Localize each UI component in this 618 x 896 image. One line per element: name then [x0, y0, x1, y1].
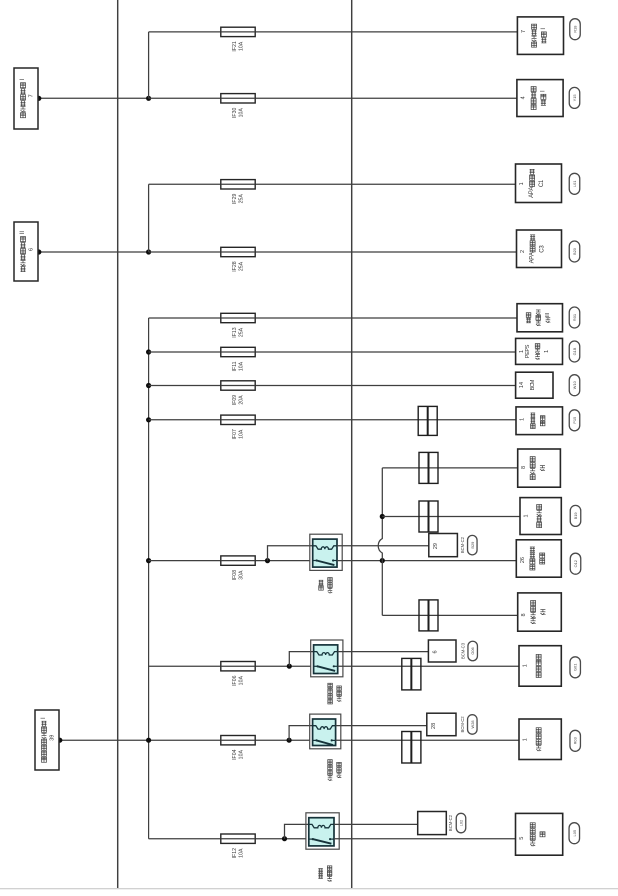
wire (coil to BCM pin28): [336, 725, 427, 727]
wire label wire 0.5Y: [569, 87, 580, 108]
svg-text:10A: 10A: [238, 676, 244, 686]
wire label wire 0.5L: [569, 173, 580, 194]
fuse IF07 10A: [221, 415, 256, 439]
wire label wire 0.5B #2: [570, 505, 581, 526]
connector box load BCM pin14: [516, 372, 553, 398]
svg-text:8: 8: [521, 613, 527, 616]
junction: [287, 664, 292, 669]
svg-text:BCM-C2: BCM-C2: [460, 716, 465, 733]
junction: [36, 96, 41, 101]
svg-text:6: 6: [29, 248, 35, 251]
wire: [149, 560, 310, 562]
connector box load hou-bei-xiang-deng pin1: [520, 498, 561, 535]
wire (load distribution with hop): [378, 468, 382, 616]
wire (coil to BCM): [334, 823, 418, 825]
junction: [57, 738, 62, 743]
label K2 left fog lamp relay: [328, 683, 342, 704]
wire: [149, 665, 311, 667]
wire (relay output): [336, 739, 519, 741]
wire: [382, 467, 517, 469]
svg-text:R18: R18: [573, 26, 578, 33]
wire label BCM-C2 aux wire: [456, 813, 466, 833]
wire label BCM-C3 pin6 wire: [468, 641, 478, 661]
bus line (fuse box right rail): [351, 0, 353, 888]
svg-text:A: A: [529, 187, 535, 191]
fuse IF09 20A: [221, 381, 256, 405]
connector box BCM-C2 pin29: [429, 534, 458, 557]
svg-text:1: 1: [520, 418, 526, 421]
svg-text:R03: R03: [573, 737, 578, 744]
svg-text:BCM-C2: BCM-C2: [448, 814, 453, 831]
svg-text:14: 14: [519, 382, 525, 388]
wire (relay output): [334, 838, 516, 840]
svg-text:25A: 25A: [238, 327, 244, 337]
svg-text:W28: W28: [470, 720, 475, 728]
svg-text:G1B: G1B: [572, 347, 577, 355]
svg-text:BCM-C3: BCM-C3: [461, 642, 466, 659]
svg-text:10A: 10A: [238, 41, 244, 51]
wire: [382, 516, 520, 518]
connector box load bei-guang-xian-shu I pin4: [517, 80, 563, 117]
wire label wire 0.5G #2: [570, 657, 581, 678]
wire label wire 0.5R #2: [569, 307, 580, 328]
connector box load qian-cang-xian-shu III: [517, 304, 563, 332]
connector box harness J1 zhou-shi-xian-shu I: [14, 68, 38, 129]
svg-text:IF04: IF04: [232, 749, 238, 759]
relay K3 right fog lamp relay: [310, 714, 341, 749]
label K4 power relay: [318, 866, 332, 881]
svg-text:1: 1: [519, 350, 525, 353]
connector box load zuo-qian-wu-deng pin1: [519, 646, 561, 687]
svg-text:L02: L02: [459, 820, 464, 827]
svg-text:IF08: IF08: [232, 570, 238, 580]
fuse IF11 10A: [221, 347, 256, 371]
svg-text:1: 1: [524, 514, 530, 517]
wire (coil feed): [268, 546, 313, 561]
wire label wire 0.5R #3: [570, 730, 581, 751]
svg-text:10A: 10A: [238, 108, 244, 118]
svg-text:29: 29: [433, 543, 439, 549]
junction: [146, 738, 151, 743]
svg-text:5: 5: [519, 837, 525, 840]
svg-text:20A: 20A: [238, 395, 244, 405]
svg-text:7: 7: [521, 30, 527, 33]
inline connector inline C right fog lamp: [402, 732, 421, 764]
junction: [380, 558, 385, 563]
relay K2 left fog lamp relay: [311, 640, 343, 677]
svg-text:IF12: IF12: [232, 848, 238, 858]
inline connector inline C left fog lamp: [402, 658, 421, 690]
wire label wire 0.5O: [570, 553, 581, 574]
connector box load you-hou-pai-zhao-deng pin8: [518, 593, 562, 631]
svg-text:10A: 10A: [238, 361, 244, 371]
connector box BCM-C3 pin6: [428, 640, 456, 662]
inline connector inline C brake-switch row: [418, 406, 437, 435]
wire: [149, 351, 516, 353]
junction: [36, 249, 41, 254]
wire: [149, 419, 516, 421]
svg-text:A: A: [530, 252, 536, 256]
svg-text:28: 28: [431, 723, 437, 729]
svg-text:B20: B20: [572, 247, 577, 255]
svg-text:10A: 10A: [238, 429, 244, 439]
wire label wire 0.5B: [569, 241, 580, 262]
svg-text:39: 39: [50, 735, 56, 741]
wire: [149, 183, 516, 185]
fuse IF08 30A: [221, 556, 256, 580]
wire: [60, 739, 310, 741]
wire: [149, 31, 518, 33]
svg-text:IF21: IF21: [232, 41, 238, 51]
wire: [148, 32, 150, 98]
svg-text:B29: B29: [470, 542, 475, 549]
svg-text:Y15: Y15: [572, 94, 577, 101]
wire: [39, 251, 149, 253]
svg-text:25A: 25A: [238, 261, 244, 271]
svg-text:IF09: IF09: [232, 395, 238, 405]
wire: [149, 251, 517, 253]
fuse IF28 25A: [221, 247, 256, 271]
wire: [149, 385, 516, 387]
svg-text:6: 6: [432, 650, 438, 653]
svg-text:30A: 30A: [238, 570, 244, 580]
connector box load yang-guang-chuan-gan-qi pin5: [516, 813, 563, 855]
svg-text:L01: L01: [572, 181, 577, 188]
junction: [146, 383, 151, 388]
relay K1 defrost relay: [310, 534, 342, 570]
label K1 defrost relay: [319, 578, 333, 593]
relay K4 power relay: [306, 813, 339, 849]
svg-text:O12: O12: [573, 560, 578, 567]
inline connector inline C trunk lamp: [419, 501, 438, 532]
connector box BCM-C2 aux: [418, 812, 447, 835]
fuse IF13 25A: [221, 313, 256, 337]
svg-text:8: 8: [521, 466, 527, 469]
wire: [149, 317, 517, 319]
wire label wire 0.5G: [569, 341, 580, 362]
svg-text:4: 4: [520, 96, 526, 99]
wire label wire 0.5R: [570, 19, 581, 40]
svg-text:7: 7: [29, 94, 35, 97]
svg-text:1: 1: [523, 664, 529, 667]
inline connector inline C rear-left plate lamp: [419, 452, 438, 483]
wire (coil feed): [285, 824, 309, 838]
wire label BCM-C2 pin28 wire: [468, 715, 478, 735]
svg-text:25A: 25A: [238, 194, 244, 204]
svg-text:IF11: IF11: [232, 361, 238, 371]
svg-text:IF13: IF13: [232, 327, 238, 337]
svg-text:BCM-C2: BCM-C2: [460, 536, 465, 553]
junction: [146, 96, 151, 101]
wire (coil feed): [289, 652, 313, 667]
svg-text:IF07: IF07: [232, 429, 238, 439]
junction: [287, 738, 292, 743]
svg-text:M: M: [530, 379, 536, 384]
svg-text:G01: G01: [573, 664, 578, 671]
junction: [146, 558, 151, 563]
connector box load you-qian-wu-deng pin1: [519, 719, 561, 760]
svg-text:1: 1: [519, 182, 525, 185]
inline connector inline C rear-right plate lamp: [419, 600, 438, 631]
svg-text:P15: P15: [572, 417, 577, 424]
svg-text:L05: L05: [572, 830, 577, 837]
label K3 right fog lamp relay: [328, 760, 342, 781]
junction: [146, 249, 151, 254]
connector box load AC control panel pin26: [516, 540, 561, 577]
bus branch (battery feed): [148, 318, 150, 839]
svg-text:W10: W10: [572, 380, 577, 389]
wire: [149, 838, 306, 840]
svg-text:1: 1: [544, 350, 550, 353]
svg-text:IF28: IF28: [232, 261, 238, 271]
connector box load ding-peng-xian-shu I pin7: [517, 17, 563, 55]
connector box load APA controller C1 pin1: [516, 164, 562, 203]
fuse IF29 25A: [221, 180, 256, 204]
wire (coil to BCM pin6): [338, 651, 429, 653]
connector box load PEPS controller pin1: [516, 338, 563, 364]
wire (relay output): [338, 665, 519, 667]
wire (coil feed): [289, 726, 312, 741]
wire label wire 0.5W: [569, 375, 580, 396]
svg-text:S: S: [525, 344, 531, 348]
wire label BCM-C2 pin29 wire: [468, 535, 478, 555]
svg-text:IF30: IF30: [232, 108, 238, 118]
svg-text:R01: R01: [572, 314, 577, 321]
wire (coil to BCM pin29): [337, 545, 429, 547]
svg-text:IF29: IF29: [232, 194, 238, 204]
wire (relay output): [337, 560, 516, 562]
svg-text:B19: B19: [573, 512, 578, 519]
connector box load zhi-dong-deng switch pin1: [516, 407, 563, 435]
connector box harness J2 qian-shi-xian-shu II: [14, 222, 38, 281]
fuse IF12 10A: [221, 834, 256, 858]
wire: [148, 184, 150, 252]
wire: [39, 97, 149, 99]
wire label wire 0.5L #2: [569, 823, 580, 844]
svg-text:10A: 10A: [238, 750, 244, 760]
wire: [382, 614, 517, 616]
connector box load zuo-hou-pai-zhao-deng pin8: [518, 449, 561, 487]
junction: [282, 836, 287, 841]
connector box harness J3 xu-dian-chi-xian-shu I: [35, 710, 59, 770]
fuse IF21 10A: [221, 27, 256, 51]
svg-text:2: 2: [520, 250, 526, 253]
svg-text:IF06: IF06: [232, 675, 238, 685]
junction: [146, 417, 151, 422]
junction: [146, 349, 151, 354]
junction: [265, 558, 270, 563]
sheet border: [0, 888, 618, 890]
svg-text:10A: 10A: [238, 848, 244, 858]
svg-text:G06: G06: [470, 647, 475, 654]
svg-text:1: 1: [523, 738, 529, 741]
fuse IF04 10A: [221, 736, 256, 760]
wire: [149, 97, 517, 99]
svg-text:26: 26: [520, 557, 526, 563]
bus line (fuse box left rail): [117, 0, 119, 888]
connector box load APA controller C3 pin2: [517, 230, 562, 268]
junction: [380, 514, 385, 519]
fuse IF06 10A: [221, 662, 256, 686]
wire label wire 0.5P: [569, 410, 580, 431]
fuse IF30 10A: [221, 94, 256, 118]
connector box BCM-C2 pin28: [427, 713, 456, 736]
